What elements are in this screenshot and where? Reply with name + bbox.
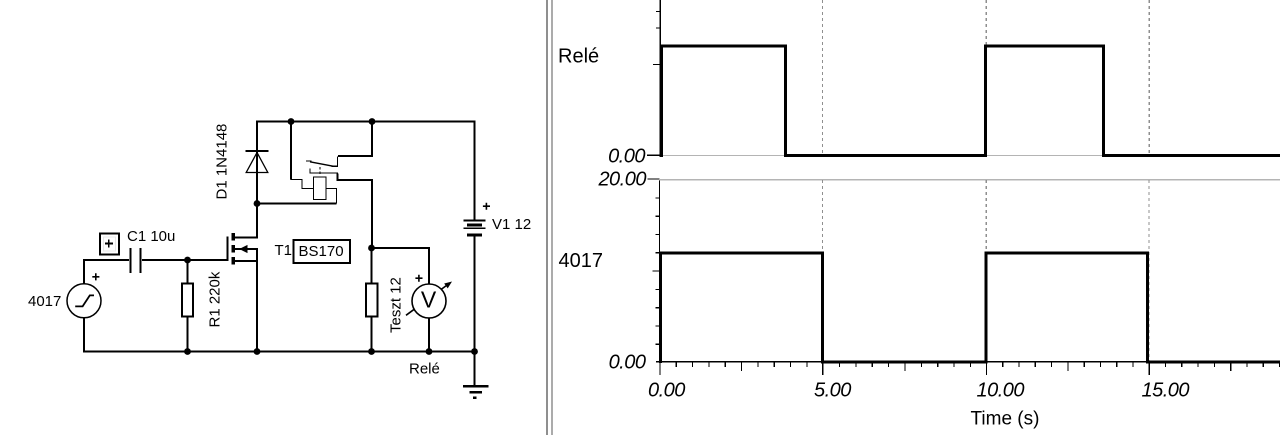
top plot dashed gridline 15s (1148, 0, 1150, 154)
svg-text:15.00: 15.00 (1142, 379, 1190, 401)
svg-text:Teszt 12: Teszt 12 (388, 277, 405, 333)
top plot dashed gridline 10s (985, 0, 987, 154)
svg-text:0.00: 0.00 (609, 351, 646, 373)
transistor T1 body arrow (239, 245, 247, 253)
wire Teszt bottom (371, 317, 373, 352)
wire voltmeter bottom (428, 318, 430, 352)
svg-text:4017: 4017 (559, 250, 604, 272)
top plot y-axis (647, 0, 661, 157)
voltage source VG1 (4017) (67, 273, 101, 318)
svg-text:5.00: 5.00 (814, 379, 851, 401)
relay coil left jog (291, 180, 314, 189)
wire drain vertical through diode to top rail (256, 122, 258, 239)
svg-text:10.00: 10.00 (977, 379, 1025, 401)
wire Teszt top (371, 248, 373, 284)
bottom plot y-axis (648, 178, 661, 362)
svg-text:0.00: 0.00 (648, 379, 685, 401)
svg-text:T1: T1 (275, 242, 293, 259)
svg-text:0.00: 0.00 (608, 145, 645, 167)
svg-text:Relé: Relé (558, 46, 599, 68)
label box BS170 (294, 240, 351, 263)
wire relay switch common to Relé node (338, 174, 373, 249)
wire mosfet source vertical down (256, 249, 258, 351)
bottom plot dashed gridline 15s (1148, 180, 1150, 361)
svg-text:20.00: 20.00 (597, 169, 646, 191)
wire R1 top (187, 261, 189, 284)
relay switch common drop (310, 169, 338, 174)
battery V1 plates (464, 220, 486, 237)
wire battery top (474, 122, 476, 220)
bottom plot dashed gridline 5s (822, 180, 824, 361)
wire battery bottom to ground (474, 236, 476, 385)
svg-text:4017: 4017 (28, 293, 61, 310)
panel divider (546, 0, 553, 435)
relay switch blade pivot tick (306, 160, 312, 162)
relay switch blade (310, 162, 333, 166)
voltmeter V body (412, 284, 446, 318)
voltmeter arrow (406, 284, 449, 315)
wire bottom rail (83, 351, 476, 353)
bottom plot 20.00 gridline (659, 179, 1280, 180)
top plot dashed gridline 5s (822, 0, 824, 154)
wire relay coil left terminal drop (290, 122, 292, 180)
svg-text:D1 1N4148: D1 1N4148 (214, 124, 231, 200)
svg-text:R1 220k: R1 220k (207, 271, 224, 327)
voltmeter plus (415, 275, 422, 282)
wire R1 bottom (187, 317, 189, 352)
capacitor C1 polarity box (100, 234, 119, 255)
wire top rail (256, 121, 476, 123)
curve Relé waveform (662, 46, 1280, 157)
junction node dots (184, 118, 478, 355)
wire VG1 bottom (83, 318, 85, 352)
diode D1 triangle (246, 153, 268, 173)
curve 4017 waveform (661, 253, 1280, 363)
svg-text:C1 10u: C1 10u (127, 228, 175, 245)
relay coil body (314, 177, 327, 200)
svg-text:BS170: BS170 (299, 243, 344, 260)
resistor Teszt 12 (366, 284, 378, 317)
wire source VG1 top to capacitor (84, 260, 129, 286)
relay coil right jog (326, 189, 337, 204)
wire capacitor to gate (node with R1) (142, 259, 227, 261)
ground (463, 385, 489, 399)
wire relay coil return (257, 203, 337, 205)
relay actuator dashed link (319, 167, 321, 177)
x-axis (time) (656, 361, 1280, 375)
diode D1 cathode bar (246, 150, 269, 152)
svg-text:Time (s): Time (s) (971, 409, 1040, 430)
resistor R1 (182, 284, 193, 317)
svg-text:Relé: Relé (409, 361, 440, 378)
relay switch fixed contact (332, 157, 338, 167)
bottom plot dashed gridline 10s (985, 180, 987, 361)
svg-text:V1 12: V1 12 (492, 216, 531, 233)
svg-text:V: V (421, 287, 437, 313)
wire relay switch right terminal to top rail (338, 122, 372, 156)
top plot zero gridline (660, 155, 1280, 156)
transistor T1 (BS170 MOSFET) (228, 233, 259, 265)
wire Relé node to voltmeter (371, 248, 429, 285)
battery plus (483, 203, 490, 210)
capacitor C1 plates (129, 248, 141, 273)
x-axis minor ticks (676, 362, 1280, 371)
